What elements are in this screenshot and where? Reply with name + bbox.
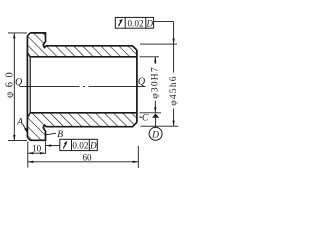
svg-text:10: 10	[32, 144, 42, 154]
dim phi60 line	[13, 33, 15, 141]
bore chamfer edge	[29, 57, 31, 113]
chamfer flange top-left	[27, 33, 30, 36]
bore chamfer diagonals left	[27, 53, 30, 57]
runout symbol top	[118, 20, 121, 26]
chamfer flange bottom-left	[27, 138, 30, 141]
leader bottom frame	[46, 145, 60, 147]
centerline Q-Q	[20, 85, 146, 87]
left face	[26, 36, 28, 138]
dim phi45h6 extension lines	[140, 43, 177, 45]
svg-text:φ45h6: φ45h6	[169, 75, 179, 105]
datum D circle	[149, 127, 162, 140]
tolerance frame bottom	[60, 139, 98, 150]
dim phi30H7 extension lines	[140, 56, 160, 58]
dim 60 right extension	[137, 146, 139, 168]
leader B	[46, 133, 56, 135]
section hatch bottom zone	[27, 113, 136, 141]
svg-text:60: 60	[83, 152, 93, 162]
leader C	[139, 116, 142, 118]
dim 10 line	[28, 152, 46, 154]
svg-text:D: D	[151, 130, 159, 140]
svg-text:D: D	[146, 19, 154, 29]
datum D triangle	[152, 113, 159, 117]
bore bottom line	[30, 112, 137, 114]
svg-text:C: C	[142, 114, 149, 124]
dim phi60 extension lines	[8, 32, 27, 34]
svg-text:φ30H7: φ30H7	[150, 66, 160, 99]
svg-text:B: B	[57, 130, 63, 140]
svg-text:A: A	[16, 117, 23, 127]
dim 10 extension lines	[27, 142, 29, 168]
datum D stem	[155, 118, 157, 128]
svg-text:0.02: 0.02	[72, 141, 88, 151]
part outline: flange bottom	[30, 122, 137, 140]
leader A	[23, 125, 27, 132]
bore top line	[30, 56, 137, 58]
svg-text:Q: Q	[138, 77, 146, 88]
tolerance frame top	[115, 17, 153, 28]
dim phi45h6 line / leader from frame	[173, 21, 175, 72]
svg-text:Q: Q	[15, 77, 23, 88]
leader top frame	[154, 20, 174, 22]
section hatch top zone	[27, 33, 136, 57]
dim 60 line	[28, 161, 139, 163]
svg-text:0.02: 0.02	[127, 19, 143, 29]
right face	[136, 50, 138, 122]
part outline: flange top	[30, 33, 137, 50]
svg-text:φ60: φ60	[4, 68, 15, 98]
dim phi30H7 line	[154, 57, 156, 64]
svg-text:D: D	[89, 141, 97, 151]
runout symbol bottom	[63, 143, 66, 149]
